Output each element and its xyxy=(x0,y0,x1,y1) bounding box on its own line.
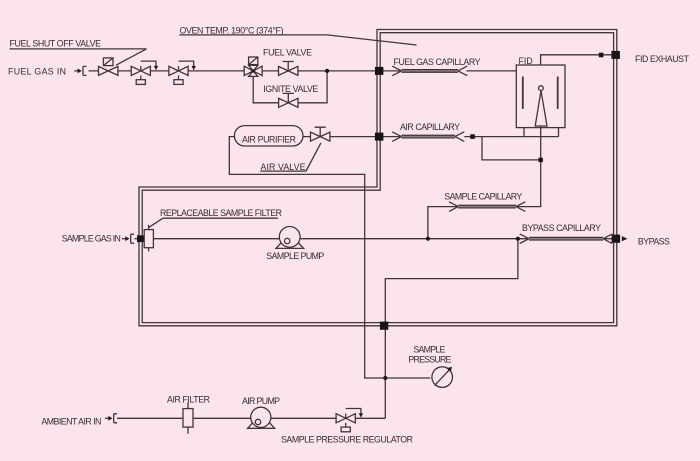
svg-text:REPLACEABLE SAMPLE FILTER: REPLACEABLE SAMPLE FILTER xyxy=(160,208,282,218)
svg-text:SAMPLE CAPILLARY: SAMPLE CAPILLARY xyxy=(444,191,522,201)
svg-text:FID EXHAUST: FID EXHAUST xyxy=(635,54,690,64)
svg-text:AIR VALVE: AIR VALVE xyxy=(261,162,306,172)
svg-text:SAMPLE: SAMPLE xyxy=(413,345,445,355)
svg-text:AMBIENT AIR IN: AMBIENT AIR IN xyxy=(41,416,101,426)
svg-text:OVEN TEMP. 190°C (374°F): OVEN TEMP. 190°C (374°F) xyxy=(180,26,284,36)
svg-text:IGNITE VALVE: IGNITE VALVE xyxy=(263,84,318,94)
svg-text:BYPASS CAPILLARY: BYPASS CAPILLARY xyxy=(522,223,601,233)
svg-text:FUEL GAS CAPILLARY: FUEL GAS CAPILLARY xyxy=(394,57,481,67)
svg-text:SAMPLE PUMP: SAMPLE PUMP xyxy=(266,251,324,261)
svg-text:FUEL SHUT OFF VALVE: FUEL SHUT OFF VALVE xyxy=(10,39,102,49)
svg-text:AIR CAPILLARY: AIR CAPILLARY xyxy=(400,122,460,132)
svg-text:AIR PUMP: AIR PUMP xyxy=(242,396,280,406)
svg-text:FID: FID xyxy=(519,56,533,66)
svg-text:PRESSURE: PRESSURE xyxy=(408,355,451,365)
svg-text:FUEL VALVE: FUEL VALVE xyxy=(263,47,312,57)
svg-text:AIR FILTER: AIR FILTER xyxy=(167,395,210,405)
svg-text:FUEL GAS IN: FUEL GAS IN xyxy=(8,66,66,76)
svg-text:BYPASS: BYPASS xyxy=(638,237,670,247)
svg-text:SAMPLE PRESSURE REGULATOR: SAMPLE PRESSURE REGULATOR xyxy=(281,434,413,444)
svg-text:SAMPLE GAS IN: SAMPLE GAS IN xyxy=(62,234,121,244)
svg-text:AIR PURIFIER: AIR PURIFIER xyxy=(242,134,296,144)
